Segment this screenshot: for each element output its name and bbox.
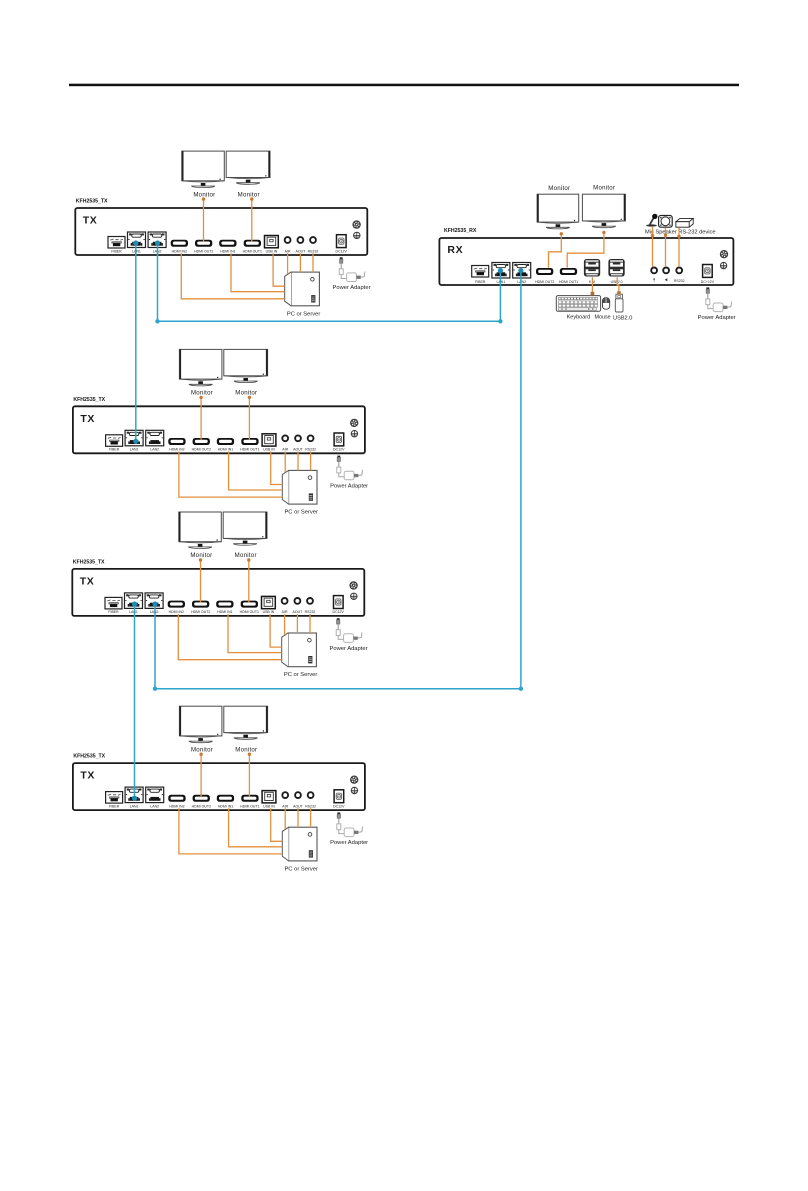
TX3 PC or Server tower [282, 633, 317, 667]
TX2 PC or Server tower [282, 470, 317, 504]
RX DC12V jack [703, 265, 713, 278]
RX USB flash drive icon [615, 294, 623, 312]
svg-text:Monitor: Monitor [235, 746, 257, 753]
TX1 monitor 2 chin [227, 178, 270, 179]
TX1 vent grille [352, 220, 360, 228]
RX monitor 2 base [592, 226, 615, 228]
TX1 AIR jack [285, 237, 291, 243]
svg-text:LAN2: LAN2 [150, 448, 159, 452]
TX1 monitor 1 screen [182, 151, 225, 181]
RX keyboard icon [556, 296, 600, 312]
wire TX3 HDMI IN1 to PC [228, 614, 282, 653]
TX4 monitor 1 stand [198, 738, 203, 741]
svg-text:Monitor: Monitor [238, 191, 260, 198]
svg-text:Monitor: Monitor [191, 746, 213, 753]
wire TX3 AOUT to PC [296, 614, 298, 633]
wire RX speaker to speaker jack [665, 228, 667, 267]
TX3 vent grille [349, 581, 357, 589]
TX4 LAN2 port [146, 787, 164, 803]
RX mouse icon [602, 298, 609, 310]
TX2 LAN1 port [125, 430, 143, 446]
TX1 HDMI OUT1 port [244, 240, 261, 247]
TX3 AIR jack [282, 598, 288, 604]
TX3 ground screw [351, 593, 357, 599]
RX chassis box [439, 238, 733, 285]
TX4 monitor 2 stand [243, 735, 248, 738]
svg-text:HDMI OUT2: HDMI OUT2 [192, 804, 211, 808]
RX HDMI OUT2 port [536, 268, 553, 275]
svg-text:FIBER: FIBER [111, 249, 122, 253]
wire LAN TX1-LAN2 to RX-LAN1 [158, 243, 501, 321]
RX monitor 2 chin [583, 221, 625, 222]
svg-text:DC12V: DC12V [336, 249, 348, 253]
TX2 HDMI IN1 port [217, 438, 234, 445]
TX2 AIR jack [282, 435, 288, 441]
RX FIBER port [472, 266, 489, 278]
svg-text:AIR: AIR [285, 249, 291, 253]
svg-text:HDMI IN1: HDMI IN1 [217, 610, 232, 614]
wire TX4 HDMI IN2 to PC [179, 808, 282, 854]
RX vent grille [720, 250, 728, 258]
TX4 monitor 2 screen [224, 706, 268, 732]
RX ground screw [720, 262, 726, 268]
wire TX3 USB IN to PC [270, 614, 282, 647]
wire TX3 RS232 to PC [309, 614, 311, 633]
TX3 FIBER port [105, 597, 122, 609]
TX3 HDMI IN2 port [168, 601, 185, 608]
TX4 RS232 jack [308, 792, 314, 798]
svg-text:PC or Server: PC or Server [284, 672, 318, 678]
wire RX K/M to keyboard [591, 277, 593, 295]
TX3 monitor 2 base [234, 544, 257, 546]
TX4 HDMI IN2 port [168, 795, 185, 802]
TX1 HDMI IN1 port [219, 240, 236, 247]
svg-text:LAN2: LAN2 [150, 804, 159, 808]
wire TX2 HDMI IN1 to PC [229, 452, 283, 491]
TX4 monitor 2 chin [224, 733, 267, 734]
header rule [69, 84, 739, 87]
svg-text:USB IN: USB IN [266, 249, 278, 253]
TX1 monitor 2 stand [246, 180, 251, 183]
TX2 chassis box [73, 406, 365, 453]
TX4 monitor 1 chin [180, 736, 222, 737]
svg-text:HDMI OUT2: HDMI OUT2 [194, 249, 213, 253]
TX2 USB IN port [262, 434, 276, 446]
TX1 HDMI IN2 port [171, 240, 188, 247]
TX3 DC12V jack [334, 596, 344, 609]
svg-text:HDMI OUT1: HDMI OUT1 [243, 249, 262, 253]
wire RX monitor 1 to HDMI OUT2 [549, 234, 562, 268]
wire TX2 monitor 1 to HDMI OUT2 [200, 397, 202, 440]
svg-text:KFH2535_TX: KFH2535_TX [76, 199, 108, 205]
wire RX RS-232 device to RS232 jack [678, 228, 680, 267]
TX3 monitor 2 stand [243, 541, 248, 544]
svg-text:AIR: AIR [282, 804, 288, 808]
TX2 monitor 2 screen [224, 349, 268, 375]
wire TX4 USB IN to PC [271, 808, 283, 841]
TX4 power adapter plug [337, 812, 344, 833]
TX1 power adapter brick [347, 272, 365, 282]
wire TX3 monitor 1 to HDMI OUT2 [200, 560, 202, 603]
svg-text:HDMI IN2: HDMI IN2 [169, 804, 184, 808]
svg-text:Power Adapter: Power Adapter [329, 646, 367, 652]
svg-text:KFH2535_RX: KFH2535_RX [444, 228, 477, 234]
svg-text:TX: TX [80, 413, 95, 425]
TX1 LAN2 port [148, 232, 166, 248]
svg-text:Power Adapter: Power Adapter [698, 315, 736, 321]
TX1 ground screw [354, 232, 360, 238]
TX3 monitor 2 screen [223, 512, 267, 538]
TX3 monitor 1 chin [179, 542, 221, 543]
wire TX1 HDMI IN2 to PC [181, 253, 284, 299]
TX4 ground screw [351, 787, 357, 793]
TX3 power adapter brick [344, 632, 362, 642]
svg-text:TX: TX [80, 575, 95, 587]
RX HDMI OUT1 port [560, 268, 577, 275]
wire RX mic to mic jack [652, 227, 654, 267]
svg-text:Mouse: Mouse [595, 314, 611, 320]
wire TX4 monitor 1 to HDMI OUT2 [200, 754, 202, 797]
wire TX1 monitor 1 to HDMI OUT2 [203, 199, 205, 242]
TX4 AIR jack [282, 792, 288, 798]
TX2 ground screw [351, 431, 357, 437]
svg-text:AOUT: AOUT [296, 249, 307, 253]
wire TX4 HDMI IN1 to PC [229, 808, 283, 847]
svg-text:LAN2: LAN2 [150, 610, 159, 614]
svg-text:HDMI OUT1: HDMI OUT1 [240, 610, 259, 614]
TX1 power adapter plug [339, 257, 346, 278]
TX3 LAN2 port [145, 593, 163, 609]
svg-text:HDMI IN2: HDMI IN2 [169, 610, 184, 614]
TX2 monitor 2 stand [243, 378, 248, 381]
wire TX3 AIR to PC [284, 614, 286, 635]
RX power adapter brick [713, 302, 731, 312]
svg-text:DC12V: DC12V [333, 448, 345, 452]
TX4 AOUT jack [295, 792, 301, 798]
svg-text:RS232: RS232 [305, 448, 316, 452]
RX monitor 1 screen [537, 194, 579, 222]
svg-text:Monitor: Monitor [235, 390, 257, 397]
TX4 FIBER port [106, 792, 123, 804]
wire TX2 USB IN to PC [271, 452, 283, 485]
TX4 HDMI IN1 port [217, 795, 234, 802]
svg-text:DC+12V: DC+12V [701, 280, 715, 284]
TX1 LAN1 port [128, 232, 146, 248]
TX4 HDMI OUT1 port [241, 795, 258, 802]
svg-text:HDMI IN1: HDMI IN1 [218, 448, 233, 452]
svg-text:TX: TX [83, 215, 98, 227]
wire TX2 AIR to PC [284, 452, 286, 473]
TX1 monitor 2 base [237, 183, 260, 185]
svg-text:RX: RX [447, 244, 463, 256]
wire TX2 monitor 2 to HDMI OUT1 [248, 397, 250, 440]
RX RS-232 device icon [676, 218, 693, 227]
svg-text:HDMI OUT1: HDMI OUT1 [559, 280, 578, 284]
svg-text:LAN1: LAN1 [129, 610, 138, 614]
svg-text:AOUT: AOUT [293, 804, 304, 808]
svg-text:DC12V: DC12V [333, 610, 345, 614]
TX2 LAN2 port [146, 430, 164, 446]
TX3 power adapter plug [336, 618, 343, 639]
svg-text:USB IN: USB IN [263, 448, 275, 452]
TX2 HDMI OUT1 port [241, 438, 258, 445]
TX1 monitor 1 stand [201, 183, 206, 186]
svg-text:LAN2: LAN2 [517, 280, 526, 284]
svg-text:Monitor: Monitor [191, 390, 213, 397]
TX1 monitor 1 chin [182, 181, 224, 182]
svg-text:USB2.0: USB2.0 [613, 316, 632, 322]
wire TX2 HDMI IN2 to PC [179, 452, 282, 498]
wire TX4 RS232 to PC [310, 808, 312, 827]
svg-text:RS232: RS232 [305, 804, 316, 808]
TX3 LAN1 port [125, 593, 143, 609]
svg-text:Monitor: Monitor [235, 552, 257, 559]
svg-text:USB IN: USB IN [263, 610, 275, 614]
TX1 DC12V jack [337, 235, 347, 248]
RX speaker glyph [665, 278, 667, 281]
RX microphone icon [646, 214, 658, 227]
svg-text:AOUT: AOUT [293, 448, 304, 452]
TX2 power adapter brick [344, 470, 362, 480]
wire LAN TX3-LAN1 to TX4-LAN1 [134, 604, 136, 798]
svg-text:KFH2535_TX: KFH2535_TX [73, 397, 105, 403]
TX2 monitor 1 stand [198, 381, 203, 384]
RX mic glyph [654, 278, 655, 282]
wire TX4 monitor 2 to HDMI OUT1 [248, 754, 250, 797]
svg-text:Monitor: Monitor [193, 191, 215, 198]
TX2 monitor 1 base [189, 384, 212, 386]
TX4 monitor 2 base [234, 738, 257, 740]
TX4 chassis box [73, 763, 365, 810]
svg-text:DC12V: DC12V [333, 804, 345, 808]
wire TX3 HDMI IN2 to PC [178, 614, 281, 660]
svg-text:PC or Server: PC or Server [284, 510, 318, 516]
RX monitor 1 chin [538, 222, 579, 223]
RX USB2.0 ports [608, 259, 624, 277]
TX3 USB IN port [262, 596, 276, 608]
RX RS232 jack [676, 268, 682, 274]
TX3 HDMI OUT1 port [241, 601, 258, 608]
svg-text:LAN1: LAN1 [130, 804, 139, 808]
svg-text:Power Adapter: Power Adapter [330, 483, 368, 489]
TX3 monitor 1 base [189, 547, 212, 549]
wire TX1 AOUT to PC [299, 253, 301, 272]
svg-text:HDMI IN2: HDMI IN2 [172, 249, 187, 253]
svg-text:HDMI OUT1: HDMI OUT1 [240, 448, 259, 452]
TX1 HDMI OUT2 port [195, 240, 212, 247]
TX2 monitor 1 chin [180, 379, 222, 380]
TX3 chassis box [72, 569, 364, 616]
TX3 HDMI IN1 port [216, 601, 233, 608]
TX1 monitor 2 screen [226, 151, 270, 177]
svg-text:HDMI IN1: HDMI IN1 [220, 249, 235, 253]
TX2 RS232 jack [308, 435, 314, 441]
RX power adapter plug [706, 287, 713, 308]
svg-text:RS232: RS232 [305, 610, 316, 614]
wire TX2 AOUT to PC [297, 452, 299, 471]
svg-text:HDMI OUT1: HDMI OUT1 [240, 804, 259, 808]
svg-text:Monitor: Monitor [593, 184, 615, 191]
wire TX4 AOUT to PC [297, 808, 299, 827]
TX1 chassis box [75, 208, 367, 255]
svg-text:Power Adapter: Power Adapter [332, 285, 370, 291]
svg-text:RS232: RS232 [674, 279, 685, 283]
TX3 AOUT jack [295, 598, 301, 604]
TX2 AOUT jack [295, 435, 301, 441]
svg-text:LAN1: LAN1 [130, 448, 139, 452]
svg-text:HDMI OUT2: HDMI OUT2 [191, 610, 210, 614]
svg-text:HDMI OUT2: HDMI OUT2 [192, 448, 211, 452]
TX2 FIBER port [106, 435, 123, 447]
svg-text:KFH2535_TX: KFH2535_TX [73, 754, 105, 760]
TX4 power adapter brick [344, 827, 362, 837]
svg-text:Mic Speaker RS-232 device: Mic Speaker RS-232 device [645, 230, 716, 236]
wire TX1 monitor 2 to HDMI OUT1 [251, 199, 253, 242]
TX2 power adapter plug [337, 456, 344, 477]
svg-text:Monitor: Monitor [190, 552, 212, 559]
RX monitor 1 base [546, 227, 569, 229]
wire RX monitor 2 to HDMI OUT1 [567, 232, 604, 267]
TX4 HDMI OUT2 port [193, 795, 210, 802]
svg-text:PC or Server: PC or Server [284, 866, 318, 872]
TX1 RS232 jack [310, 237, 316, 243]
TX3 HDMI OUT2 port [192, 601, 209, 608]
RX mic jack [651, 268, 657, 274]
TX4 monitor 1 screen [179, 706, 222, 736]
wire TX4 AIR to PC [284, 808, 286, 829]
wire TX1 AIR to PC [287, 253, 289, 274]
RX speaker icon [659, 216, 673, 228]
TX4 monitor 1 base [189, 741, 212, 743]
TX4 PC or Server tower [282, 827, 317, 861]
svg-text:Monitor: Monitor [548, 185, 570, 192]
TX3 RS232 jack [307, 598, 313, 604]
wire TX1 USB IN to PC [273, 253, 285, 286]
svg-text:TX: TX [80, 770, 95, 782]
TX2 vent grille [350, 419, 358, 427]
svg-text:FIBER: FIBER [109, 804, 120, 808]
TX1 AOUT jack [298, 237, 304, 243]
RX speaker jack [663, 268, 669, 274]
svg-text:KFH2535_TX: KFH2535_TX [73, 559, 105, 565]
wire TX3 monitor 2 to HDMI OUT1 [248, 560, 250, 603]
RX LAN2 port [513, 263, 531, 279]
wire RX USB2.0 to flash drive [617, 277, 619, 291]
TX1 FIBER port [108, 237, 125, 249]
TX4 LAN1 port [125, 787, 143, 803]
wire TX1 HDMI IN1 to PC [231, 253, 285, 292]
RX monitor 1 stand [556, 224, 561, 227]
svg-text:HDMI IN2: HDMI IN2 [169, 448, 184, 452]
RX monitor 2 stand [602, 223, 607, 226]
svg-text:AIR: AIR [282, 448, 288, 452]
svg-text:HDMI OUT2: HDMI OUT2 [535, 280, 554, 284]
wire TX1 RS232 to PC [312, 253, 314, 272]
TX4 vent grille [350, 776, 358, 784]
svg-text:Power Adapter: Power Adapter [330, 840, 368, 846]
svg-text:FIBER: FIBER [475, 280, 486, 284]
TX2 monitor 2 base [234, 381, 257, 383]
TX3 monitor 1 stand [198, 544, 203, 547]
svg-text:Keyboard: Keyboard [567, 314, 591, 320]
TX3 monitor 2 chin [224, 538, 267, 539]
wire LAN TX1-LAN1 to TX2-LAN1 [135, 243, 137, 441]
TX4 DC12V jack [334, 790, 344, 803]
svg-text:AOUT: AOUT [293, 610, 304, 614]
TX2 monitor 2 chin [224, 376, 267, 377]
svg-text:FIBER: FIBER [108, 610, 119, 614]
svg-text:FIBER: FIBER [109, 448, 120, 452]
TX1 PC or Server tower [285, 272, 320, 306]
svg-text:USB IN: USB IN [263, 804, 275, 808]
TX2 HDMI IN2 port [168, 438, 185, 445]
TX3 monitor 1 screen [179, 512, 222, 542]
svg-text:AIR: AIR [282, 610, 288, 614]
TX4 USB IN port [262, 791, 276, 803]
svg-text:RS232: RS232 [308, 249, 319, 253]
TX1 monitor 1 base [192, 186, 215, 188]
RX keyboard/mouse USB ports [584, 259, 600, 277]
TX2 HDMI OUT2 port [193, 438, 210, 445]
wire TX2 RS232 to PC [310, 452, 312, 471]
RX LAN1 port [492, 263, 510, 279]
TX2 monitor 1 screen [179, 349, 222, 379]
wire LAN TX3-LAN2 to RX-LAN2 [155, 271, 521, 689]
svg-text:HDMI IN1: HDMI IN1 [218, 804, 233, 808]
svg-text:PC or Server: PC or Server [287, 311, 321, 317]
RX monitor 2 screen [582, 194, 625, 221]
TX2 DC12V jack [334, 433, 344, 446]
TX1 USB IN port [265, 236, 279, 248]
